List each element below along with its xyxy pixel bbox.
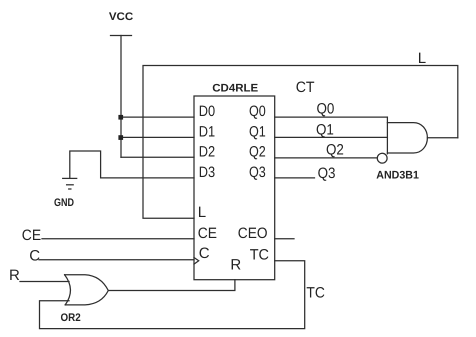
svg-text:TC: TC (250, 247, 269, 264)
svg-text:Q0: Q0 (249, 103, 266, 120)
svg-text:CEO: CEO (238, 225, 268, 242)
svg-text:AND3B1: AND3B1 (376, 169, 419, 181)
svg-text:GND: GND (54, 197, 74, 209)
svg-text:Q2: Q2 (326, 141, 344, 158)
svg-text:OR2: OR2 (61, 312, 81, 324)
svg-text:R: R (230, 256, 241, 273)
svg-text:CE: CE (22, 227, 41, 244)
svg-text:CD4RLE: CD4RLE (212, 82, 258, 94)
svg-text:L: L (198, 204, 206, 221)
svg-text:Q1: Q1 (316, 122, 334, 139)
svg-text:D2: D2 (199, 143, 215, 160)
svg-text:C: C (199, 245, 210, 262)
svg-text:R: R (9, 267, 20, 284)
svg-text:TC: TC (306, 285, 325, 302)
svg-text:VCC: VCC (109, 11, 133, 23)
svg-text:L: L (418, 50, 426, 67)
svg-text:D1: D1 (199, 123, 215, 140)
svg-text:Q1: Q1 (249, 123, 266, 140)
svg-text:C: C (29, 248, 40, 265)
svg-text:Q3: Q3 (318, 165, 336, 182)
svg-text:Q0: Q0 (317, 101, 335, 118)
svg-text:Q2: Q2 (249, 143, 266, 160)
svg-text:D0: D0 (199, 103, 215, 120)
svg-text:Q3: Q3 (249, 164, 266, 181)
svg-text:CE: CE (198, 225, 217, 242)
svg-text:D3: D3 (199, 164, 215, 181)
svg-text:CT: CT (296, 79, 315, 96)
